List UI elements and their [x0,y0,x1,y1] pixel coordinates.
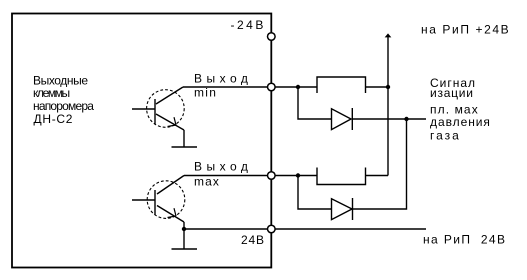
wire: 24V bottom row [184,228,426,230]
wire: Выход min row [183,86,317,88]
svg-text:Выход: Выход [194,72,252,86]
junction node max [296,173,300,177]
junction node min/+24V [386,85,390,89]
svg-text:-24В: -24В [231,18,266,32]
transistor VT2 [132,176,185,249]
svg-text:Выход: Выход [194,160,252,174]
wire: VD1 cathode to signal output [352,118,426,120]
device box ДН-С2 [12,14,271,268]
svg-text:ДН-С2: ДН-С2 [34,112,74,126]
terminal Выход min [268,83,276,91]
junction node signal [404,117,408,121]
arrow to РиП +24В [386,34,391,37]
transistor VT1 [132,87,184,147]
terminal Выход max [268,172,276,180]
diode VD2 [332,198,353,220]
wire: staple1 to node [366,86,389,88]
junction node min/staple [296,85,300,89]
svg-text:24В: 24В [241,233,265,247]
svg-text:клеммы: клеммы [33,86,70,100]
contact K2 (bracket under max wire) [317,168,366,185]
contact K1 (bracket over min wire) [317,77,366,93]
svg-text:давления: давления [430,115,491,129]
svg-text:min: min [194,86,217,100]
terminal -24В [268,33,276,41]
wire: +24V vertical A [387,36,389,176]
svg-text:на РиП +24В: на РиП +24В [421,23,510,37]
ground VT2 [172,248,198,250]
svg-text:изации: изации [430,86,474,100]
wire: node min down to diode VD1 [298,87,332,119]
wire: node max down to diode VD2 [298,176,332,210]
terminal 24В [268,225,276,233]
junction node emitter/24V [182,227,186,231]
ground VT1 [172,146,198,148]
wire: VD2 cathode up to signal node [353,119,407,209]
svg-text:на РиП 24В: на РиП 24В [423,233,506,247]
svg-text:напоромера: напоромера [33,99,94,113]
wire: Выход max row [184,175,317,177]
svg-text:газа: газа [430,129,461,143]
diode VD1 [332,108,353,130]
wire: staple2 to vertical A [366,175,389,177]
svg-text:max: max [194,175,220,189]
